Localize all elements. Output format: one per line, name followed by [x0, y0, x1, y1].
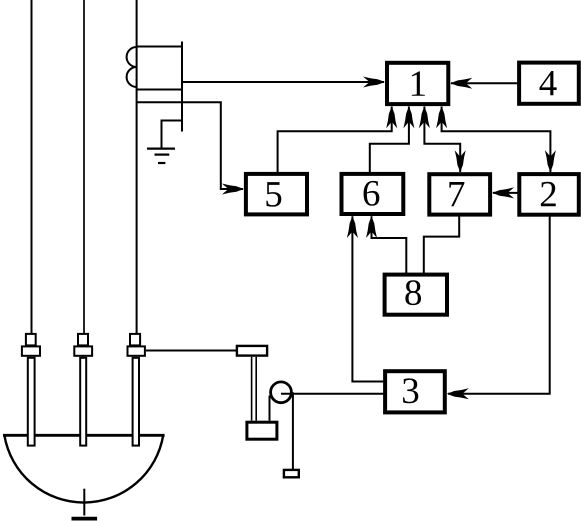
ground — [147, 149, 175, 163]
wire phase C — [136, 0, 138, 334]
arrow into block 1 right — [450, 78, 472, 89]
wire phase B — [83, 0, 85, 334]
wire tap to block 5 — [137, 102, 243, 189]
block 8 — [385, 275, 447, 315]
wire block 1 to block 2 — [442, 107, 551, 173]
transformer T1 frame top — [137, 46, 182, 48]
block 5 — [246, 174, 307, 215]
arrow into block 1 bottom b — [403, 106, 414, 128]
wire block 4 to block 1 — [451, 82, 518, 84]
electrode 2 cap — [78, 334, 88, 346]
drive motor box — [247, 422, 277, 439]
arrow into block 1 bottom c — [419, 106, 430, 128]
wire phase A — [31, 0, 33, 334]
transformer T1 coil — [127, 47, 137, 87]
weight — [284, 470, 299, 477]
electrode 2 collar — [74, 346, 92, 355]
wire block 3 to block 6 — [352, 216, 383, 381]
transformer T1 frame bottom — [137, 89, 182, 91]
electrode 1 collar — [22, 346, 40, 355]
pulley bracket — [269, 396, 271, 421]
wire electrode 3 to drive bar — [146, 350, 237, 352]
arrow into block 7 right — [492, 187, 514, 198]
furnace bottom conductor — [83, 489, 85, 516]
arrow into block 6 bottom a — [347, 216, 358, 238]
electrode 2 rod — [80, 358, 86, 446]
transformer T1 secondary bar — [181, 42, 183, 132]
electrode 1 cap — [26, 334, 36, 346]
block 6 — [342, 174, 404, 214]
arrow into block 6 bottom b — [366, 216, 377, 238]
arrow into block 1 left — [363, 77, 385, 88]
wire block 2 to block 3 — [448, 216, 550, 394]
wire ground connector — [162, 121, 183, 148]
block 7 — [429, 174, 490, 214]
block 4 — [519, 63, 579, 104]
rope — [292, 392, 294, 469]
wire block 6 to block 1 — [370, 107, 409, 173]
arrow into block 5 — [222, 184, 244, 195]
wire transformer to block 1 — [182, 81, 384, 83]
electrode 3 rod — [133, 358, 139, 446]
drive screw — [252, 357, 257, 421]
block 1 — [387, 63, 448, 104]
wire pulley to block 3 — [281, 393, 384, 395]
drive top bar — [237, 346, 267, 356]
block 3 — [385, 371, 445, 412]
arrow into block 2 top — [545, 150, 556, 172]
wire block 8 to block 6 — [372, 216, 407, 273]
electrode 1 rod — [28, 358, 35, 446]
furnace bottom bar — [72, 517, 98, 521]
wire block 2 to block 7 — [493, 192, 518, 194]
arrow into block 3 right — [447, 388, 469, 399]
furnace rim — [3, 434, 165, 437]
arrow into block 1 bottom a — [386, 106, 397, 128]
pulley — [271, 382, 292, 403]
electrode 3 cap — [130, 334, 140, 346]
furnace bowl — [4, 435, 163, 502]
arrow into block 7 top — [455, 150, 466, 172]
wire block 5 to block 1 — [278, 107, 392, 173]
arrow into block 1 bottom d — [436, 106, 447, 128]
wire block 7 to block 8 — [424, 216, 459, 273]
block 2 — [519, 174, 579, 215]
electrode 3 collar — [128, 346, 145, 355]
wire block 1 to block 7 — [424, 107, 460, 173]
